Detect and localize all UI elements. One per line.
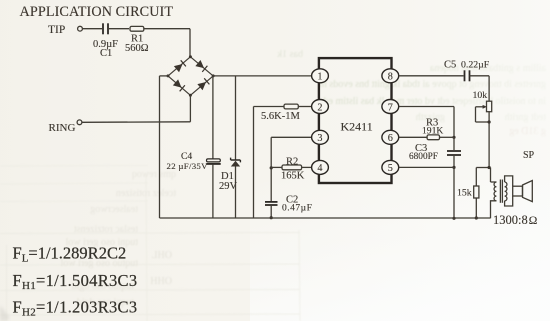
svg-text:0.22µF: 0.22µF xyxy=(461,60,490,71)
wire RING to bridge bottom xyxy=(82,95,190,122)
svg-text:bas 1k: bas 1k xyxy=(277,49,303,60)
svg-text:5: 5 xyxy=(388,163,393,174)
svg-text:FL=1/1.289R2C2: FL=1/1.289R2C2 xyxy=(13,244,127,265)
diode top-right (points to right vertex) xyxy=(195,60,207,72)
pin 7 xyxy=(382,100,399,114)
zener diode D1 29V xyxy=(219,76,240,218)
svg-text:10k: 10k xyxy=(473,90,488,101)
svg-text:K2411: K2411 xyxy=(341,120,373,134)
capacitor C4 22uF/35V xyxy=(167,76,221,218)
wire TIP to C1 xyxy=(82,28,102,30)
resistor R2 165K xyxy=(271,157,312,182)
bridge rectifier BR1 xyxy=(167,55,215,97)
wire C5 to potentiometer xyxy=(470,76,490,101)
svg-text:191K: 191K xyxy=(422,125,443,136)
svg-text:R2: R2 xyxy=(286,157,298,168)
wire pin 8 to C5 xyxy=(399,75,464,77)
pin 2 xyxy=(312,100,329,114)
potentiometer 10k xyxy=(473,90,492,168)
faint bleed table lower left xyxy=(0,166,300,321)
speaker SP xyxy=(513,150,535,202)
svg-text:22 µF/35V: 22 µF/35V xyxy=(167,161,209,171)
node TIP terminal xyxy=(48,24,82,36)
svg-text:APPLICATION CIRCUIT: APPLICATION CIRCUIT xyxy=(20,4,174,20)
capacitor C1 0.9uF xyxy=(93,23,118,59)
svg-text:7: 7 xyxy=(388,102,393,113)
title APPLICATION CIRCUIT xyxy=(20,4,174,20)
pin 8 xyxy=(382,69,399,83)
svg-text:4: 4 xyxy=(317,163,322,174)
svg-text:OHH: OHH xyxy=(150,276,172,287)
svg-text:2: 2 xyxy=(317,102,322,113)
wire pin 5 to right column xyxy=(399,166,454,168)
wire pin 3 to node A xyxy=(270,137,312,201)
capacitor C5 0.22uF xyxy=(444,60,490,82)
svg-text:6: 6 xyxy=(388,133,393,144)
wire pin 7 down right column xyxy=(399,107,456,151)
svg-text:6800PF: 6800PF xyxy=(409,152,438,162)
svg-text:560Ω: 560Ω xyxy=(125,43,149,54)
svg-text:165K: 165K xyxy=(281,171,305,182)
diode top-left (points to top vertex) xyxy=(174,60,186,72)
svg-text:gnrettes ib tnoveng ot qpove a: gnrettes ib tnoveng ot qpove ai tbda lk … xyxy=(319,79,546,90)
pin 6 xyxy=(382,130,399,144)
svg-text:SP: SP xyxy=(523,150,535,161)
diode bottom-right (points to right vertex) xyxy=(197,78,209,90)
svg-text:RING: RING xyxy=(49,122,76,134)
svg-text:C1: C1 xyxy=(100,48,112,59)
resistor 15k xyxy=(457,168,479,220)
pin 1 xyxy=(312,69,329,83)
capacitor C2 0.47uF xyxy=(265,195,312,220)
IC U1 K2411 body xyxy=(319,58,392,183)
formula FH2 xyxy=(13,298,138,319)
node RING terminal xyxy=(49,120,82,134)
resistor R3 191K xyxy=(399,118,454,140)
capacitor C3 6800PF xyxy=(409,143,461,220)
wire C1 to R1 xyxy=(108,28,129,30)
formula FL xyxy=(13,244,127,265)
svg-text:TIP: TIP xyxy=(48,24,65,36)
svg-text:in to noistilo b srileqest edt: in to noistilo b srileqest edt vd oter m… xyxy=(324,96,546,107)
svg-text:15k: 15k xyxy=(457,188,472,199)
svg-text:29V: 29V xyxy=(219,181,238,192)
svg-text:3: 3 xyxy=(317,133,322,144)
svg-text:8: 8 xyxy=(388,72,393,83)
svg-text:0.47µF: 0.47µF xyxy=(282,204,312,214)
svg-text:1: 1 xyxy=(317,72,322,83)
svg-text:tedt gnrith: tedt gnrith xyxy=(505,112,546,123)
transformer T1 1300:8 xyxy=(491,176,538,227)
diode bottom-left (points to bottom vertex) xyxy=(173,79,185,91)
resistor 5.6K-1M on pin 2 xyxy=(254,104,312,218)
corner smudge bottom left (decorative) xyxy=(0,305,10,321)
node B junction and wire to transformer xyxy=(476,166,490,182)
resistor R1 560ohm xyxy=(125,26,149,54)
svg-text:tealsecrwog: tealsecrwog xyxy=(90,204,138,215)
ground rail wire xyxy=(160,217,491,219)
wire bridge left vertex to ground rail xyxy=(160,76,169,218)
svg-text:5.6K-1M: 5.6K-1M xyxy=(261,111,300,122)
svg-text:C5: C5 xyxy=(444,60,456,71)
wire VCC bridge right vertex to pin 1 xyxy=(213,75,312,77)
pin 3 xyxy=(312,130,329,144)
svg-text:g 31D eg: g 31D eg xyxy=(509,126,546,137)
formula FH1 xyxy=(13,271,138,292)
svg-text:tcelez rotisizen: tcelez rotisizen xyxy=(116,188,176,199)
svg-text:1300:8Ω: 1300:8Ω xyxy=(493,213,537,227)
pin 4 xyxy=(312,160,329,174)
svg-text:teslac rotzizenst: teslac rotzizenst xyxy=(74,224,138,235)
wire R1 to bridge top xyxy=(144,29,190,57)
svg-text:OHL: OHL xyxy=(151,250,172,261)
pin 5 xyxy=(382,160,399,174)
